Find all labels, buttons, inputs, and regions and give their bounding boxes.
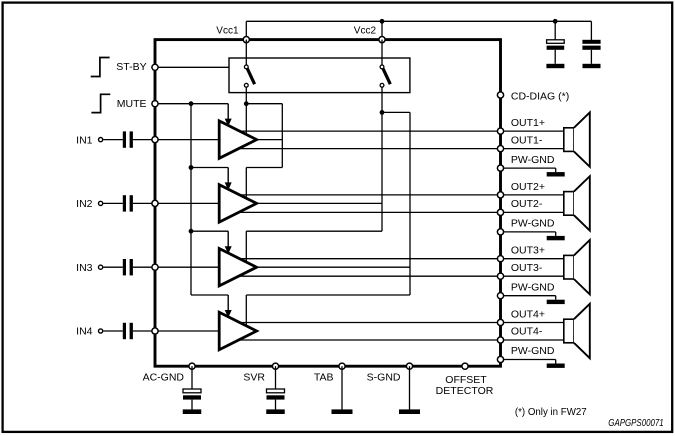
ground PW-GND2 bbox=[547, 236, 565, 240]
node SW2 output junction bbox=[380, 110, 385, 115]
wire S-GND to ground bbox=[409, 366, 411, 409]
speaker LS1 bbox=[564, 112, 590, 166]
op-amp power amplifier A3 bbox=[219, 249, 256, 286]
svg-text:MUTE: MUTE bbox=[117, 98, 147, 110]
wire SW2 feed into amp4 bbox=[245, 295, 247, 326]
svg-text:OUT4+: OUT4+ bbox=[511, 309, 545, 321]
pin IN2 bbox=[152, 200, 158, 206]
svg-text:OUT3+: OUT3+ bbox=[511, 245, 545, 257]
svg-text:SVR: SVR bbox=[243, 372, 265, 384]
wire IN4 source to capacitor bbox=[103, 330, 123, 332]
wire OUT1- bbox=[240, 148, 564, 150]
svg-text:OUT2-: OUT2- bbox=[511, 198, 543, 210]
svg-text:IN1: IN1 bbox=[76, 134, 93, 146]
node mute bus junction 3 bbox=[189, 229, 194, 234]
wire mute branch amp2 bbox=[191, 167, 228, 169]
pin PW-GND2 bbox=[497, 229, 503, 235]
pin Vcc2 bbox=[379, 37, 385, 43]
pin IN1 bbox=[152, 137, 158, 143]
node IN4 source terminal bbox=[99, 329, 103, 333]
wire mute arrow into amp1 bbox=[225, 104, 232, 127]
wire Vcc1 riser bbox=[245, 21, 247, 39]
pin IN4 bbox=[152, 328, 158, 334]
wire IN4 capacitor to amp bbox=[133, 330, 219, 332]
svg-text:S-GND: S-GND bbox=[367, 372, 401, 384]
pin MUTE bbox=[152, 101, 158, 107]
pin OUT1- bbox=[497, 146, 503, 152]
wire SW2 feed over to amp4 bbox=[246, 294, 410, 296]
wire SW2 feed drop to amp3 row bbox=[381, 112, 383, 231]
wire OUT4+ bbox=[240, 322, 564, 324]
pin OUT2- bbox=[497, 209, 503, 215]
pin ST-BY bbox=[152, 64, 158, 70]
wire mute branch amp4 bbox=[191, 294, 228, 296]
ground (AC-GND capacitor) bbox=[183, 409, 202, 414]
wire SW1 feed over to amp2 : back bbox=[246, 167, 282, 169]
pin PW-GND3 bbox=[497, 293, 503, 299]
st-by/mute control box bbox=[229, 58, 410, 93]
wire OUT3- bbox=[240, 275, 564, 277]
capacitor supply electrolytic bbox=[547, 21, 565, 64]
node mute bus junction 2 bbox=[189, 165, 194, 170]
wire PW-GND3 stub bbox=[501, 296, 556, 300]
ground (supply electrolytic) bbox=[546, 64, 564, 68]
pin TAB bbox=[339, 363, 345, 369]
speaker LS3 bbox=[564, 240, 590, 294]
svg-text:IN3: IN3 bbox=[76, 262, 93, 274]
wire PW-GND2 stub bbox=[501, 232, 556, 236]
wire amp2 output join bbox=[256, 202, 382, 204]
pin AC-GND bbox=[189, 363, 195, 369]
wire mute branch amp3 bbox=[191, 230, 228, 232]
wire Vcc supply top rail bbox=[246, 20, 591, 22]
pin OUT1+ bbox=[497, 128, 503, 134]
ground (TAB) bbox=[332, 409, 353, 414]
wire IN1 source to capacitor bbox=[103, 139, 123, 141]
svg-text:ST-BY: ST-BY bbox=[116, 61, 146, 73]
wire mute arrow into amp4 bbox=[225, 295, 232, 318]
wire SW1 output down to node bbox=[245, 87, 247, 104]
wire MUTE pin to first amp branch bbox=[158, 103, 228, 105]
pin PW-GND1 bbox=[497, 165, 503, 171]
node IN2 source terminal bbox=[99, 201, 103, 205]
svg-text:DETECTOR: DETECTOR bbox=[436, 385, 494, 397]
pin OUT4+ bbox=[497, 319, 503, 325]
node IN1 source terminal bbox=[99, 138, 103, 142]
svg-text:AC-GND: AC-GND bbox=[143, 372, 185, 384]
wire IN3 source to capacitor bbox=[103, 266, 123, 268]
switch SW1 bbox=[244, 65, 254, 87]
switch SW2 bbox=[380, 65, 390, 87]
pin OUT2+ bbox=[497, 192, 503, 198]
wire Vcc2 pin to switch bbox=[381, 40, 383, 65]
pin OUT3+ bbox=[497, 256, 503, 262]
wire Vcc2 riser bbox=[381, 21, 383, 39]
svg-text:Vcc2: Vcc2 bbox=[354, 25, 377, 36]
svg-text:OUT4-: OUT4- bbox=[511, 326, 543, 338]
pin OUT3- bbox=[497, 273, 503, 279]
op-amp power amplifier A2 bbox=[219, 185, 256, 222]
wire mute arrow into amp2 bbox=[225, 168, 232, 191]
capacitor IN2 coupling bbox=[123, 195, 133, 211]
ground (supply ceramic) bbox=[583, 64, 601, 68]
node IN3 source terminal bbox=[99, 265, 103, 269]
capacitor SVR bbox=[267, 366, 285, 409]
wire OUT4- bbox=[240, 339, 564, 341]
wire SW2 feed into amp3 bbox=[245, 231, 247, 262]
svg-text:IN2: IN2 bbox=[76, 198, 93, 210]
svg-text:TAB: TAB bbox=[314, 372, 334, 384]
wire ST-BY pin to control box bbox=[158, 66, 229, 68]
svg-text:PW-GND: PW-GND bbox=[511, 154, 555, 166]
wire IN3 capacitor to amp bbox=[133, 266, 219, 268]
svg-text:PW-GND: PW-GND bbox=[511, 345, 555, 357]
svg-text:OUT3-: OUT3- bbox=[511, 262, 543, 274]
ground PW-GND3 bbox=[547, 300, 565, 304]
wire SW2 branch drop to amp4 row bbox=[409, 112, 411, 295]
node supply cap junction bbox=[553, 19, 558, 24]
node Vcc2 junction bbox=[380, 19, 385, 24]
label OFFSET DETECTOR bbox=[436, 374, 494, 397]
op-amp power amplifier A4 bbox=[219, 312, 256, 349]
wire mute arrow into amp3 bbox=[225, 231, 232, 254]
pin Vcc1 bbox=[243, 37, 249, 43]
wire OUT2- bbox=[240, 211, 564, 213]
wire OUT2+ bbox=[240, 194, 564, 196]
wire SW2 output down to node bbox=[381, 87, 383, 112]
pin PW-GND4 bbox=[497, 356, 503, 362]
capacitor AC-GND bbox=[183, 366, 201, 409]
svg-text:OUT1-: OUT1- bbox=[511, 134, 543, 146]
wire mute distribution bus bbox=[190, 104, 192, 295]
IC body box bbox=[155, 40, 501, 367]
wire IN2 capacitor to amp bbox=[133, 202, 219, 204]
pin OFFSET DETECTOR bbox=[462, 363, 468, 369]
wire Vcc1 pin to switch bbox=[245, 40, 247, 65]
svg-text:(*) Only in FW27: (*) Only in FW27 bbox=[515, 407, 587, 418]
capacitor IN4 coupling bbox=[123, 323, 133, 339]
pin SVR bbox=[272, 363, 278, 369]
wire SW1 feed over to amp2 : drop bbox=[281, 104, 283, 168]
wire PW-GND4 stub bbox=[501, 360, 556, 364]
svg-text:IN4: IN4 bbox=[76, 326, 93, 338]
wire SW2 branch right bbox=[382, 111, 410, 113]
wire OUT1+ bbox=[240, 130, 564, 132]
op-amp power amplifier A1 bbox=[219, 121, 256, 158]
svg-text:CD-DIAG (*): CD-DIAG (*) bbox=[511, 90, 569, 102]
svg-text:OFFSET: OFFSET bbox=[445, 374, 487, 386]
capacitor IN1 coupling bbox=[123, 131, 133, 147]
node SW1 output junction bbox=[244, 101, 249, 106]
wire amp1 output to feedback drop bbox=[256, 139, 282, 141]
ground (SVR capacitor) bbox=[266, 409, 285, 414]
speaker LS4 bbox=[564, 304, 590, 358]
svg-text:PW-GND: PW-GND bbox=[511, 218, 555, 230]
wire SW1 feed into amp1 bbox=[245, 104, 247, 135]
wire TAB to ground bbox=[341, 366, 343, 409]
speaker LS2 bbox=[564, 176, 590, 230]
pin CD-DIAG bbox=[497, 92, 503, 98]
svg-text:OUT2+: OUT2+ bbox=[511, 181, 545, 193]
svg-text:PW-GND: PW-GND bbox=[511, 281, 555, 293]
pin IN3 bbox=[152, 264, 158, 270]
wire amp3 output join bbox=[256, 266, 410, 268]
mute waveform symbol bbox=[91, 94, 110, 112]
ground PW-GND1 bbox=[547, 172, 565, 176]
wire SW2 feed over to amp3 bbox=[246, 230, 382, 232]
capacitor IN3 coupling bbox=[123, 259, 133, 275]
svg-text:GAPGPS00071: GAPGPS00071 bbox=[608, 418, 663, 429]
wire IN1 capacitor to amp bbox=[133, 139, 219, 141]
st-by waveform symbol bbox=[91, 58, 110, 77]
pin OUT4- bbox=[497, 337, 503, 343]
ground (S-GND) bbox=[399, 409, 420, 414]
wire SW1 feed into amp2 bbox=[245, 168, 247, 199]
wire IN2 source to capacitor bbox=[103, 202, 123, 204]
svg-text:Vcc1: Vcc1 bbox=[216, 26, 239, 37]
pin S-GND bbox=[406, 363, 412, 369]
wire PW-GND1 stub bbox=[501, 168, 556, 172]
ground PW-GND4 bbox=[547, 364, 565, 368]
svg-text:OUT1+: OUT1+ bbox=[511, 117, 545, 129]
capacitor supply ceramic bbox=[582, 21, 600, 64]
node mute bus junction 1 bbox=[189, 101, 194, 106]
wire OUT3+ bbox=[240, 258, 564, 260]
wire SW1 feed over to amp2 : top bbox=[246, 103, 282, 105]
